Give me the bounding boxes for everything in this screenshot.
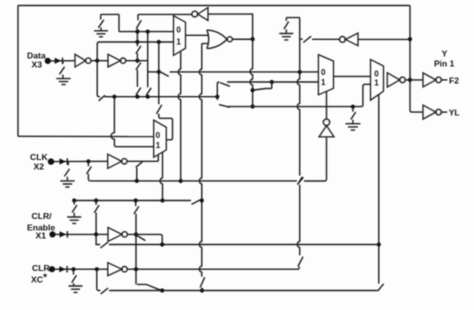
wire U11 output to X1 lower line [127, 234, 162, 244]
wire MUX4 select column x162 with hop to X1 bus [160, 153, 162, 201]
wire output column x410 [410, 6, 423, 113]
svg-text:X1: X1 [36, 231, 47, 241]
switch arm bus tap up to line y82 [217, 82, 230, 97]
wire feedback inverter U2 output y14.4 [138, 13, 192, 15]
svg-text:CLR/: CLR/ [32, 211, 53, 221]
svg-text:0: 0 [156, 131, 161, 140]
wire node line y31.6 to MUX1 input 0 [119, 31, 174, 33]
svg-text:YL: YL [449, 108, 460, 118]
node junction 73/269.2 [71, 267, 75, 271]
diode Data input arrow [55, 58, 63, 65]
node junction 147/31.6 [146, 30, 150, 34]
node output top junction [408, 37, 412, 41]
wire column x114 from bus to MUX4 input 1 with hop [111, 97, 154, 147]
node junction 74/200.5 [72, 198, 76, 202]
node NOR output junction [251, 37, 255, 41]
svg-text:1: 1 [321, 78, 326, 87]
wire X1 input [56, 233, 109, 235]
logic-gate G1 NOR [207, 30, 232, 49]
wire X1 lower line y244.5 [109, 244, 379, 246]
diode X1 input arrow [60, 231, 68, 238]
wire column x201 long programmable column with hops [199, 44, 201, 277]
wire node 96 down to X1 lower line [96, 234, 100, 244]
switch arm bus tap down to line y106.6 [217, 97, 230, 108]
wire MUX2 select from inverter U6 [326, 92, 328, 119]
multiplexer MUX4 [154, 120, 167, 157]
switch column x201 bottom [200, 277, 205, 290]
wire inverter2 output [126, 60, 148, 62]
svg-text:CLR: CLR [32, 263, 50, 273]
svg-text:0: 0 [321, 68, 326, 77]
wire node 97 up to MUX1 input 1 line y42 [97, 42, 173, 61]
node junction 137/96.7 [135, 95, 139, 99]
node junction 96/234.4 [94, 232, 98, 236]
switch on X1 bus at x195 [192, 200, 201, 205]
switch node 136 up to U10 output wire [136, 162, 143, 181]
wire node 96 down to X1 wire with switch [94, 201, 99, 235]
svg-text:1: 1 [156, 141, 161, 150]
node junction 158/71.9 [157, 70, 161, 74]
node junction 162/244.5 [160, 242, 164, 246]
wire column x180 from MUX1 bottom with hops [178, 52, 180, 181]
wire X1 bus y200.5 [74, 200, 191, 202]
multiplexer MUX3 [371, 59, 384, 100]
wire feedback box bottom edge to MUX4 input 0 [18, 135, 154, 137]
wire CLK input [54, 160, 108, 162]
node junction 202/290.5 [200, 288, 204, 292]
wire select line y71.9 to MUX2 input 0 with switch [148, 72, 319, 77]
wire MUX3 select column x378 [378, 94, 380, 283]
wire U10 output to MUX4 bottom [127, 155, 158, 161]
wire CLR input [55, 268, 108, 270]
wire column x158 bus to MUX4 output loop with switch [156, 97, 172, 140]
wire column x147 with switch [146, 32, 151, 97]
wire CLR lower line y290.5 [109, 290, 377, 292]
switch arm column x136 to X1 output wire [137, 236, 146, 241]
wire NOR output to node 252 [232, 38, 252, 40]
ground G4 switched from CLR wire [69, 269, 83, 292]
switch arm node 252 to stub 271 [254, 89, 265, 91]
switch SW-B feedback inverter to line y31.6 [136, 14, 141, 30]
op-amp U2 feedback inverter pointing left [192, 8, 208, 21]
svg-text:Y: Y [442, 49, 448, 59]
switch node 136 down to CLR lower line [136, 269, 161, 290]
ground G6 switched to top of column x299 [279, 18, 299, 40]
ground G3 switched below X1 bus [67, 201, 81, 224]
wire line y181 CLK bus [90, 180, 324, 182]
wire YL stub [441, 111, 447, 113]
svg-text:1: 1 [176, 37, 181, 46]
wire node 97 down to bus y96.7 with switch [97, 61, 105, 101]
node junction 137/31.6 [135, 30, 139, 34]
node junction 180/181 [179, 179, 183, 183]
wire U5 input from output column [358, 38, 410, 40]
wire U7 output to F2 inverter [405, 79, 423, 81]
switch MUX3 select to CLR lower line [378, 284, 384, 291]
op-amp U3 Data inverter 1 [75, 54, 91, 67]
node junction 271/82 [270, 80, 274, 84]
node junction 162/200.5 [160, 198, 164, 202]
multiplexer MUX1 [174, 16, 186, 56]
node junction 97/60.65 [95, 59, 99, 63]
node junction 114/96.7 [112, 95, 116, 99]
wire column x299 long programmable column with hops and switches [297, 18, 303, 270]
node junction 96/269.2 [95, 267, 99, 271]
ground G7 switched below line y106.6 [345, 107, 360, 130]
op-amp U6 select inverter pointing up [319, 119, 334, 137]
node CLR input pad [49, 266, 55, 272]
wire U12 output long to column x299 [127, 268, 299, 270]
svg-text:Pin 1: Pin 1 [434, 59, 455, 69]
switch on line y181 at x300 [297, 177, 303, 184]
wire feedback box left edge [17, 6, 19, 137]
node junction bus tap 217/96.7 [215, 95, 219, 99]
wire line y82 to MUX2 input 1 [227, 81, 318, 83]
node Y output junction [408, 78, 412, 82]
node junction 136/180.9 [135, 179, 139, 183]
op-amp U8 F2 inverter [423, 73, 441, 87]
ground G2 switched from CLK wire [60, 162, 74, 188]
svg-text:F2: F2 [449, 75, 459, 85]
node junction 137/60.65 [135, 59, 139, 63]
node CLK input pad [48, 158, 54, 164]
node junction 88/161.3 [86, 159, 90, 163]
svg-text:X3: X3 [32, 59, 43, 69]
wire node 96.8 down to CLR lower line with switch [97, 269, 108, 294]
node junction 136/269.2 [134, 267, 138, 271]
node junction 252/106.5 [251, 104, 255, 108]
wire U2 input from NOR output node [208, 14, 253, 38]
wire column x158 from line y42 [158, 42, 160, 97]
node X1 input pad [49, 231, 55, 237]
op-amp U9 YL inverter [423, 105, 441, 119]
wire stub from node 271/82 [266, 82, 272, 89]
node junction 378/244.5 [377, 242, 381, 246]
op-amp U10 CLK inverter [108, 154, 127, 168]
node junction 136/234.4 [134, 232, 138, 236]
svg-text:0: 0 [374, 70, 379, 79]
wire column x252 from NOR node with hops [250, 39, 252, 106]
svg-text:1: 1 [374, 78, 379, 87]
svg-text:X2: X2 [34, 161, 45, 171]
wire NOR input B from column x201 [202, 43, 209, 45]
wire MUX2 output to MUX3 input 0 [334, 75, 371, 77]
wire line y106.6 to MUX3 input 1 [228, 84, 371, 106]
svg-text:0: 0 [176, 26, 181, 35]
wire inverter1 to inverter2 [91, 60, 108, 62]
wire Data input [51, 60, 75, 62]
wire bus y96.7 [105, 96, 218, 98]
node junction 162/290.5 [160, 288, 164, 292]
op-amp U5 feedback inverter pointing left [340, 33, 359, 46]
node Data input pad [45, 58, 51, 64]
node junction 201/200.5 [200, 198, 204, 202]
node junction 135/200.5 [134, 198, 138, 202]
op-amp U4 Data inverter 2 [108, 54, 126, 67]
node junction 299/72 [298, 70, 302, 74]
op-amp U7 output inverter after MUX3 [387, 73, 405, 87]
node junction 252/90.2 [251, 88, 255, 92]
ground G1 switched from Data wire [56, 61, 70, 85]
node junction 137/42 [135, 40, 139, 44]
node junction 352/106.7 [351, 105, 355, 109]
wire CLK node down to line y181 with switch [87, 161, 92, 181]
wire feedback box top edge [18, 5, 410, 7]
node junction 96/200.5 [94, 198, 98, 202]
op-amp U12 CLR inverter [108, 263, 127, 276]
wire column x136 down to CLR row with switch [134, 201, 139, 270]
diode CLR input arrow [59, 266, 67, 273]
wire F2 stub [441, 79, 447, 81]
multiplexer MUX2 [318, 55, 333, 95]
op-amp U11 X1 inverter [108, 227, 127, 241]
switch on X1 lower line [100, 242, 108, 248]
ground G5 switched to node line y31.6 [94, 14, 119, 36]
node junction 158/42 [157, 40, 161, 44]
wire U6 input down to line y181 [325, 137, 327, 181]
diode CLK input arrow [60, 158, 68, 165]
switch and feedback inverter U5 wire y39 [300, 36, 340, 42]
wire column x137 with switches [136, 32, 141, 97]
node junction 147/96.7 [146, 95, 150, 99]
wire MUX1 output to NOR input A [186, 34, 209, 36]
